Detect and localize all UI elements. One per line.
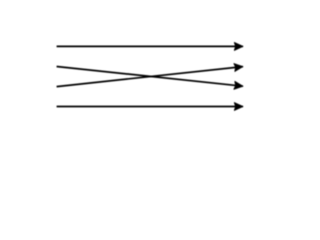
wire arrow 3 (ascending, crosses arrow 2) — [57, 67, 243, 87]
wire arrow 2 (descending, crosses arrow 3) — [57, 67, 243, 87]
wire arrow 1 (top horizontal) — [57, 45, 243, 47]
wire arrow 4 (bottom horizontal) — [57, 106, 243, 108]
